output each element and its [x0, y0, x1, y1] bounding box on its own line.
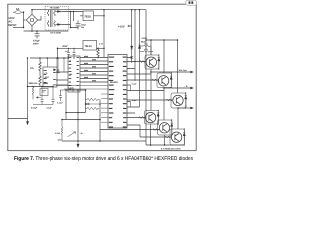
- svg-text:7815: 7815: [84, 14, 91, 18]
- resistor R1 47k: [39, 58, 41, 74]
- hex buffer U5 pin smudges: [69, 57, 80, 89]
- HEXFRED diode D2: [170, 76, 172, 79]
- transistor Q5: [159, 123, 169, 133]
- svg-text:10W: 10W: [58, 138, 62, 141]
- svg-text:106: 106: [69, 73, 72, 76]
- trip cluster bottom wire: [33, 104, 53, 106]
- svg-text:100µF: 100µF: [81, 23, 87, 26]
- phase C output wire: [178, 107, 191, 109]
- IGBT module Q1/D1 box: [145, 55, 159, 69]
- bridge rectifier BR1: [26, 14, 37, 25]
- feedback network verticals: [86, 90, 101, 120]
- transistor Q6: [171, 132, 181, 142]
- IGBT module Q5/D5 box: [158, 120, 173, 135]
- supply capacitor C10: [67, 48, 70, 58]
- IGBT module Q4/D4 box: [145, 111, 159, 125]
- svg-text:IR2130: IR2130: [110, 81, 118, 84]
- charge pump diode D10: [138, 45, 140, 49]
- svg-text:10A, 5µs: 10A, 5µs: [179, 69, 188, 72]
- decoupling wire: [61, 89, 67, 91]
- oscillator supply wire: [57, 48, 59, 58]
- +15V distribution vertical wire: [103, 10, 105, 58]
- sense bus wire: [62, 140, 146, 142]
- timer U3 pin smudges: [44, 70, 56, 85]
- bootstrap diode D9: [131, 46, 133, 49]
- svg-text:0.1µF: 0.1µF: [132, 83, 138, 86]
- transformer secondary diode D7: [56, 11, 63, 13]
- AC input lower wire: [13, 27, 24, 29]
- interstage wires: [40, 72, 68, 85]
- HEXFRED diode D3: [185, 96, 187, 99]
- phase A arrowhead: [191, 71, 194, 73]
- resistor R4 10k: [32, 87, 34, 100]
- svg-text:0.47µF: 0.47µF: [57, 102, 64, 105]
- trip network cluster wires: [28, 86, 54, 89]
- svg-text:78L05: 78L05: [85, 45, 93, 48]
- phase A output wire: [151, 71, 191, 73]
- regulator U2 7815 box: [83, 11, 94, 21]
- filter capacitor C2 100uF: [76, 21, 81, 30]
- HEXFRED diode D1: [158, 58, 160, 61]
- IGBT module Q6/D6 box: [170, 129, 185, 145]
- ground wire left: [8, 118, 28, 120]
- bootstrap jumper wire VS1: [130, 85, 132, 91]
- DC+ rail drop to power stage wire: [145, 10, 147, 145]
- page tab box top-right: [186, 0, 197, 5]
- svg-text:DT-3-1840: DT-3-1840: [51, 32, 62, 35]
- svg-text:→ B: → B: [184, 85, 189, 88]
- bootstrap resistor RB2: [140, 51, 154, 53]
- potentiometer wiper arrow: [68, 132, 76, 137]
- comparator U6 box: [40, 89, 48, 96]
- gate resistor RG2: [152, 79, 158, 81]
- trip diode D13: [36, 97, 41, 99]
- main driver U1 IR2130 box: [108, 55, 127, 129]
- AC input vertical junction wire: [24, 12, 26, 27]
- phase leg B vertical wire: [163, 40, 166, 145]
- IGBT module Q2/D2 box: [157, 73, 172, 88]
- svg-text:+15V: +15V: [118, 24, 125, 28]
- svg-text:Figure 7. Three-phase six-ste: Figure 7. Three-phase six-step motor dri…: [14, 156, 193, 162]
- caption: [14, 156, 193, 162]
- driver right pin wires: [127, 58, 164, 114]
- decoupling capacitor C5: [72, 88, 75, 92]
- svg-text:0.05Ω: 0.05Ω: [55, 132, 61, 135]
- regulator U4 wires: [58, 47, 105, 49]
- schematic frame: [8, 4, 196, 150]
- feedback resistor R7: [86, 107, 99, 109]
- oscillator top rail wire: [30, 57, 68, 59]
- coupling diode D11: [57, 58, 65, 73]
- top DC+ rail wire: [32, 9, 146, 11]
- phase leg C vertical wire: [177, 40, 180, 129]
- rectified output wires: [62, 12, 83, 28]
- transformer secondary diode D8: [56, 24, 63, 26]
- trip capacitor C6: [41, 87, 44, 105]
- power stage bottom bus wire: [146, 144, 185, 146]
- gate wire Q2: [127, 79, 159, 81]
- HEXFRED diode D5: [171, 123, 173, 126]
- svg-text:INPUT: INPUT: [8, 23, 17, 27]
- driver input wires lower: [56, 86, 108, 90]
- bootstrap resistor RB1: [140, 45, 152, 55]
- bridge right lead wire: [38, 16, 41, 20]
- bus capacitor C1 470uF: [35, 31, 40, 39]
- feedback resistor R6: [86, 98, 99, 100]
- gate resistor RG4: [139, 117, 145, 119]
- gate wire Q6: [127, 125, 172, 137]
- ground arrow center: [77, 141, 79, 148]
- svg-text:0.1µF: 0.1µF: [132, 99, 138, 102]
- resistor R3 4.7k: [97, 48, 99, 58]
- regulator U2 input/output wires: [80, 15, 104, 17]
- AC input upper wire with fuse F1: [13, 11, 24, 13]
- gate resistor RG6: [165, 136, 171, 138]
- svg-text:47Ω: 47Ω: [144, 48, 148, 51]
- gate wire Q5: [100, 129, 159, 131]
- DC- bottom rail wire: [24, 30, 69, 32]
- svg-text:250V: 250V: [33, 43, 39, 46]
- supply capacitor C11: [73, 48, 76, 58]
- transformer T1 windings: [47, 10, 55, 28]
- svg-text:5A: 5A: [16, 8, 19, 11]
- page tab text: [189, 1, 191, 3]
- transformer T1 dashed box: [45, 7, 69, 31]
- left return vertical wire: [27, 58, 29, 122]
- transistor Q4: [145, 112, 155, 122]
- regulator U4 78L05 box: [83, 41, 97, 51]
- feedback diode D12: [86, 103, 100, 105]
- driver left pin stubs: [101, 94, 108, 122]
- gate wire Q4: [127, 117, 145, 119]
- timer U3 box: [43, 67, 57, 87]
- +15V node wire: [129, 25, 132, 27]
- gate wire Q3: [127, 99, 173, 101]
- bootstrap vertical wire VB1: [131, 10, 133, 63]
- HEXFRED diode D6: [183, 133, 185, 136]
- svg-text:→ C: → C: [183, 105, 188, 108]
- gate resistor RG1: [140, 61, 146, 63]
- svg-text:0.1µF: 0.1µF: [47, 107, 53, 110]
- bus net label smudges: [84, 56, 96, 81]
- svg-text:0.02µF: 0.02µF: [31, 107, 38, 110]
- svg-text:+15V: +15V: [62, 45, 68, 48]
- HEXFRED diode D4: [157, 113, 159, 116]
- bootstrap jumper wire VS2: [130, 102, 132, 108]
- IGBT module Q3/D3 box: [171, 93, 186, 108]
- gate resistor RG5: [153, 129, 159, 131]
- driver bottom feedback wires: [62, 120, 100, 142]
- svg-text:PE-64380: PE-64380: [50, 6, 60, 9]
- bootstrap vertical wire VB2: [134, 10, 136, 81]
- svg-text:6 X IRGBC20U GATE: 6 X IRGBC20U GATE: [161, 147, 181, 150]
- bootstrap vertical wire VB3: [139, 10, 141, 107]
- trip capacitor C7: [52, 87, 55, 105]
- gate resistor RG3: [166, 99, 172, 101]
- resistor R2 100k: [39, 76, 41, 87]
- driver U1 pin name smudges: [109, 57, 127, 128]
- phase leg A vertical wire: [150, 40, 152, 145]
- decoupling capacitor C9: [59, 92, 62, 102]
- bootstrap capacitor C8: [130, 57, 133, 59]
- svg-text:+310V: +310V: [141, 37, 148, 40]
- gate wire Q1: [127, 61, 146, 63]
- buffer output wires to driver: [80, 58, 108, 83]
- fuse F1 5A: [15, 11, 21, 14]
- transistor Q3: [173, 95, 183, 105]
- bridge bottom lead wire: [31, 26, 33, 31]
- phase B output wire: [164, 87, 191, 89]
- phase B arrowhead: [191, 87, 194, 89]
- decoupling node wires: [61, 90, 86, 141]
- feedback tap wire: [66, 112, 86, 114]
- transistor Q2: [158, 76, 168, 86]
- svg-text:BUS: BUS: [141, 41, 146, 44]
- phase C arrowhead: [191, 107, 194, 109]
- power stage top bus wire: [146, 39, 178, 41]
- ground arrow left: [26, 122, 28, 125]
- sense resistor R8: [61, 120, 63, 142]
- transistor Q1: [146, 57, 156, 67]
- hex buffer U5 box: [68, 56, 80, 92]
- bridge top lead wire: [31, 10, 33, 15]
